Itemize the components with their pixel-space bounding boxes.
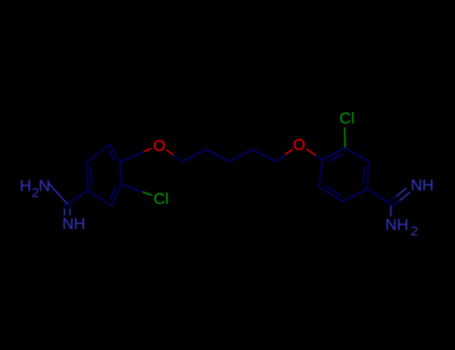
amidine group left: bond ring-C [68, 191, 88, 205]
amidine group right: bond ring-C [367, 189, 391, 204]
svg-text:Cl: Cl [154, 191, 169, 208]
oxygen O right ether [293, 137, 323, 160]
wire C5-O right [276, 149, 293, 161]
benzene ring left [87, 145, 122, 207]
svg-text:NH: NH [62, 216, 85, 233]
wire C4-C5 [253, 150, 276, 162]
imine NH right double bond [389, 177, 433, 206]
svg-text:NH: NH [411, 177, 434, 194]
wire O-C1 [166, 150, 182, 162]
svg-text:Cl: Cl [339, 110, 354, 127]
svg-text:H: H [20, 178, 32, 195]
chlorine Cl left [122, 185, 169, 208]
svg-text:2: 2 [411, 224, 418, 239]
svg-text:N: N [39, 178, 51, 195]
svg-text:O: O [153, 138, 165, 155]
benzene ring right [319, 148, 369, 202]
chlorine Cl right [339, 110, 354, 148]
wire C1-C2 [183, 150, 206, 162]
svg-text:O: O [293, 137, 305, 154]
wire C3-C4 [229, 150, 252, 162]
imine NH left double bond [62, 204, 85, 233]
svg-text:NH: NH [385, 217, 408, 234]
wire C2-C3 [206, 150, 229, 162]
oxygen O left ether [120, 138, 166, 162]
amine NH2 right [385, 206, 418, 239]
amine H2N left [20, 178, 68, 204]
